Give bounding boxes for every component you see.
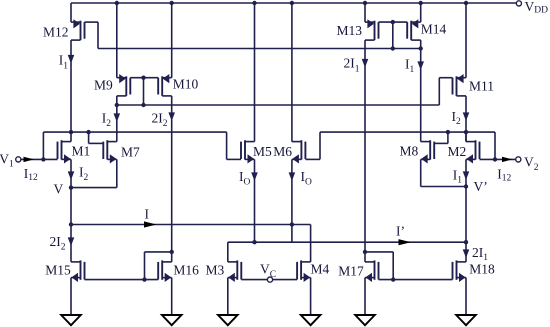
- svg-text:1: 1: [355, 64, 360, 74]
- svg-text:DD: DD: [534, 6, 548, 16]
- svg-text:V: V: [0, 152, 9, 167]
- svg-text:M1: M1: [72, 144, 91, 159]
- svg-text:2: 2: [83, 173, 88, 183]
- svg-text:2I: 2I: [472, 245, 484, 260]
- svg-text:M3: M3: [206, 262, 225, 277]
- svg-text:V: V: [524, 155, 534, 170]
- svg-text:M11: M11: [469, 78, 494, 93]
- svg-text:1: 1: [457, 176, 462, 186]
- svg-text:V’: V’: [474, 179, 488, 194]
- svg-text:2: 2: [163, 119, 168, 129]
- svg-text:M13: M13: [337, 23, 363, 38]
- svg-text:2: 2: [456, 117, 461, 127]
- svg-text:2: 2: [534, 163, 539, 173]
- svg-text:V: V: [54, 182, 64, 197]
- svg-text:M8: M8: [400, 144, 419, 159]
- svg-text:V: V: [525, 0, 535, 14]
- svg-text:V: V: [260, 262, 270, 277]
- svg-text:12: 12: [502, 174, 512, 184]
- svg-text:I: I: [145, 207, 150, 222]
- svg-text:12: 12: [28, 173, 38, 183]
- svg-text:M5: M5: [253, 144, 272, 159]
- svg-text:M18: M18: [469, 262, 495, 277]
- svg-text:2I: 2I: [50, 234, 62, 249]
- svg-text:O: O: [243, 177, 250, 187]
- svg-text:M16: M16: [173, 263, 199, 278]
- svg-text:M4: M4: [311, 261, 330, 276]
- svg-text:1: 1: [9, 160, 14, 170]
- svg-text:2I: 2I: [344, 56, 356, 71]
- svg-text:C: C: [270, 270, 276, 280]
- svg-text:M6: M6: [273, 144, 292, 159]
- svg-text:2: 2: [106, 119, 111, 129]
- svg-text:M12: M12: [43, 25, 69, 40]
- svg-text:M14: M14: [421, 22, 447, 37]
- svg-text:O: O: [305, 177, 312, 187]
- svg-text:M10: M10: [173, 77, 199, 92]
- svg-text:M7: M7: [121, 144, 140, 159]
- svg-text:2I: 2I: [152, 111, 164, 126]
- svg-text:1: 1: [409, 65, 414, 75]
- svg-text:1: 1: [63, 61, 68, 71]
- svg-text:I’: I’: [396, 224, 405, 239]
- svg-text:M17: M17: [338, 263, 364, 278]
- svg-text:2: 2: [61, 242, 66, 252]
- svg-text:M15: M15: [45, 262, 71, 277]
- svg-text:M2: M2: [448, 144, 467, 159]
- svg-text:M9: M9: [94, 78, 113, 93]
